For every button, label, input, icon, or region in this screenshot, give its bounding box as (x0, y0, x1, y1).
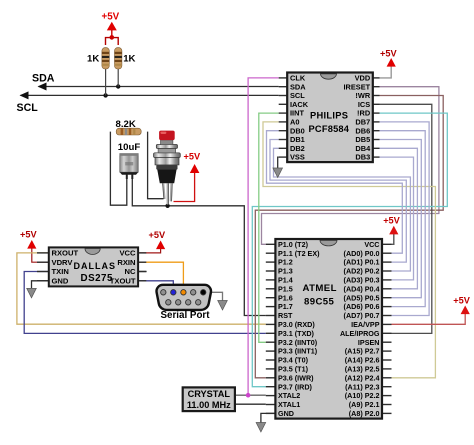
svg-text:DB5: DB5 (355, 135, 370, 144)
wire 8.2K left lead down to capacitor + lead (110, 132, 126, 206)
svg-text:(A11) P2.3: (A11) P2.3 (345, 382, 379, 391)
capacitor C1 10uF electrolytic (120, 154, 138, 179)
svg-text:(AD4) P0.4: (AD4) P0.4 (344, 284, 380, 293)
svg-text:+5V: +5V (102, 12, 120, 23)
svg-text:(A13) P2.5: (A13) P2.5 (345, 365, 380, 374)
svg-text:SCL: SCL (17, 102, 39, 114)
svg-text:SDA: SDA (32, 73, 55, 85)
wire SDA bus line (39, 86, 279, 88)
svg-text:(AD5) P0.5: (AD5) P0.5 (344, 293, 380, 302)
svg-text:GND: GND (278, 409, 294, 418)
svg-text:XTAL2: XTAL2 (278, 391, 300, 400)
svg-text:(A8) P2.0: (A8) P2.0 (349, 409, 380, 418)
ground PCF8584 VSS (278, 157, 279, 168)
wire PCF8584 !INT to ATMEL P3.2 (green) (259, 113, 279, 342)
wire PCF8584 CLK to ATMEL XTAL2 (magenta) (248, 78, 279, 395)
wire DS275 RXOUT to ATMEL P3.0 (tan) (17, 253, 266, 324)
wire DS275 RXIN to serial port pin (orange) (138, 262, 183, 290)
svg-text:(A10) P2.2: (A10) P2.2 (345, 391, 380, 400)
svg-text:PHILIPS: PHILIPS (310, 110, 348, 120)
wire DB6 to P0.6 (lavender) (380, 131, 426, 307)
svg-text:+5V: +5V (184, 152, 201, 162)
svg-text:GND: GND (52, 277, 69, 286)
resistor R3 8.2K (116, 128, 141, 135)
svg-text:SDA: SDA (290, 82, 306, 91)
ground DS275 GND (32, 281, 49, 289)
svg-text:1K: 1K (123, 54, 135, 65)
wire crystal to XTAL2 (235, 394, 266, 396)
svg-text:RXIN: RXIN (117, 258, 135, 267)
IC U3 ATMEL 89C55 (266, 239, 392, 419)
svg-text:P3.6 (IWR): P3.6 (IWR) (278, 373, 314, 382)
svg-text:P3.3 (IINT1): P3.3 (IINT1) (278, 347, 318, 356)
svg-text:P3.2 (IINT0): P3.2 (IINT0) (278, 338, 318, 347)
svg-text:CRYSTAL: CRYSTAL (188, 389, 231, 399)
svg-text:Serial Port: Serial Port (161, 310, 211, 321)
svg-text:IRESET: IRESET (343, 82, 370, 91)
wire PCF8584 A0 to ATMEL P2.4 (khaki) (263, 122, 435, 378)
svg-text:(AD6) P0.6: (AD6) P0.6 (344, 302, 380, 311)
wire R1 lead to SCL (105, 69, 107, 96)
svg-text:P1.3: P1.3 (278, 267, 293, 276)
wire R2 lead to SDA (117, 69, 119, 87)
wire DS275 TXOUT to serial port pin (navy) (138, 281, 173, 290)
svg-text:P1.1 (T2 EX): P1.1 (T2 EX) (278, 249, 320, 258)
svg-text:A0: A0 (290, 118, 299, 127)
svg-text:P1.2: P1.2 (278, 258, 293, 267)
wire PCF8584 !WR to ATMEL P3.6 (maroon) (255, 96, 443, 378)
svg-text:!WR: !WR (355, 91, 370, 100)
svg-text:ATMEL: ATMEL (303, 283, 337, 294)
wire DB7 to P0.7 (lavender) (380, 122, 430, 316)
svg-text:P3.0 (RXD): P3.0 (RXD) (278, 320, 315, 329)
svg-text:RST: RST (278, 311, 293, 320)
wire PCF8584 IRESET to ATMEL P1.0 (mauve) (262, 87, 439, 245)
svg-text:10uF: 10uF (118, 142, 141, 153)
svg-text:IPSEN: IPSEN (358, 338, 380, 347)
svg-text:+5V: +5V (380, 49, 397, 59)
svg-text:ICS: ICS (358, 100, 370, 109)
svg-text:CLK: CLK (290, 74, 306, 83)
svg-text:1K: 1K (87, 54, 99, 65)
svg-text:P1.6: P1.6 (278, 293, 293, 302)
wire PCF8584 ICS to ATMEL ALE/IPROG (dark gray) (380, 104, 432, 333)
node switch common junction (165, 204, 169, 208)
svg-text:VCC: VCC (119, 249, 136, 258)
svg-text:P3.7 (IRD): P3.7 (IRD) (278, 382, 313, 391)
svg-text:P1.0 (T2): P1.0 (T2) (278, 240, 309, 249)
connector J1 DB9 serial port (157, 285, 211, 310)
svg-text:VSS: VSS (290, 153, 305, 162)
wire 8.2K right lead down to switch pin (148, 132, 164, 199)
wire RST net: capacitor - lead to ATMEL RST pin (132, 174, 265, 316)
wire DB1 to P0.1 (lavender) (270, 140, 406, 263)
wire DB2 to P0.2 (lavender) (274, 148, 411, 271)
svg-text:(AD1) P0.1: (AD1) P0.1 (344, 258, 380, 267)
ground serial port shield (206, 292, 223, 301)
resistor R1 1K (left pull-up) (102, 48, 109, 69)
svg-text:DB7: DB7 (355, 118, 370, 127)
node +5V junction (110, 35, 115, 40)
svg-text:DB0: DB0 (290, 126, 305, 135)
svg-text:IACK: IACK (290, 100, 309, 109)
svg-text:SCL: SCL (290, 91, 305, 100)
svg-text:11.00 MHz: 11.00 MHz (187, 400, 231, 410)
svg-text:(AD0) P0.0: (AD0) P0.0 (344, 249, 380, 258)
svg-text:TXOUT: TXOUT (110, 277, 136, 286)
svg-text:(AD7) P0.7: (AD7) P0.7 (344, 311, 380, 320)
svg-text:ALE/IPROG: ALE/IPROG (340, 329, 380, 338)
wire DB0 to P0.0 (lavender) (267, 131, 403, 254)
ground ATMEL GND (261, 413, 276, 423)
svg-text:+5V: +5V (149, 230, 166, 240)
svg-text:DB6: DB6 (355, 126, 370, 135)
node SDA arrow (38, 83, 47, 91)
svg-text:PCF8584: PCF8584 (309, 124, 350, 134)
wire DB3 to P0.3 (lavender) (380, 157, 414, 280)
wire DB4 to P0.4 (lavender) (380, 148, 418, 288)
svg-text:DB4: DB4 (355, 144, 371, 153)
node SCL arrow (20, 91, 29, 99)
wire PCF8584 !RD to ATMEL P3.7 (cyan) (252, 113, 447, 387)
svg-text:TXIN: TXIN (52, 267, 69, 276)
IC U1 PHILIPS PCF8584 (279, 73, 380, 163)
op-amp U2 DALLAS DS275 (37, 247, 146, 286)
svg-text:P3.4 (T0): P3.4 (T0) (278, 356, 309, 365)
switch S1 pushbutton (154, 131, 181, 205)
svg-text:+5V: +5V (20, 230, 37, 240)
svg-text:VDD: VDD (355, 74, 371, 83)
svg-text:P1.7: P1.7 (278, 302, 293, 311)
svg-text:(A14) P2.6: (A14) P2.6 (345, 356, 380, 365)
svg-text:VCC: VCC (364, 240, 379, 249)
svg-text:8.2K: 8.2K (116, 119, 136, 130)
svg-text:DB3: DB3 (355, 153, 370, 162)
svg-text:DB1: DB1 (290, 135, 305, 144)
svg-text:VDRV: VDRV (52, 258, 74, 267)
svg-text:DB2: DB2 (290, 144, 305, 153)
svg-text:(A12) P2.4: (A12) P2.4 (345, 373, 380, 382)
svg-text:XTAL1: XTAL1 (278, 400, 300, 409)
svg-text:P3.5 (T1): P3.5 (T1) (278, 365, 309, 374)
svg-text:DS275: DS275 (81, 273, 114, 284)
wire DB5 to P0.5 (lavender) (380, 140, 422, 298)
svg-text:IEA/VPP: IEA/VPP (351, 320, 380, 329)
svg-text:DALLAS: DALLAS (74, 261, 117, 271)
crystal Y1 11.00 MHz (183, 387, 235, 411)
node SDA junction (1K pull-up) (116, 84, 120, 88)
svg-text:(A15) P2.7: (A15) P2.7 (345, 347, 380, 356)
svg-text:(AD3) P0.3: (AD3) P0.3 (344, 276, 380, 285)
wire DS275 NC stub (138, 271, 147, 273)
svg-text:(A9) P2.1: (A9) P2.1 (349, 400, 380, 409)
svg-text:+5V: +5V (383, 216, 400, 226)
svg-text:P3.1 (TXD): P3.1 (TXD) (278, 329, 315, 338)
svg-text:RXOUT: RXOUT (52, 249, 79, 258)
svg-text:IINT: IINT (290, 109, 304, 118)
svg-text:89C55: 89C55 (304, 297, 335, 308)
svg-text:NC: NC (125, 267, 136, 276)
wire crystal to XTAL1 (235, 403, 266, 405)
svg-text:!RD: !RD (357, 109, 371, 118)
svg-text:+5V: +5V (453, 295, 470, 305)
svg-text:P1.5: P1.5 (278, 284, 293, 293)
resistor R2 1K (right pull-up) (115, 48, 122, 69)
node XTAL2 junction (magenta) (246, 393, 251, 398)
wire DS275 TXIN to ATMEL P3.1 (navy) (24, 272, 266, 334)
node SCL junction (1K pull-up) (103, 93, 107, 97)
svg-text:(AD2) P0.2: (AD2) P0.2 (344, 267, 380, 276)
wire SCL bus line (21, 94, 279, 96)
svg-text:P1.4: P1.4 (278, 276, 293, 285)
